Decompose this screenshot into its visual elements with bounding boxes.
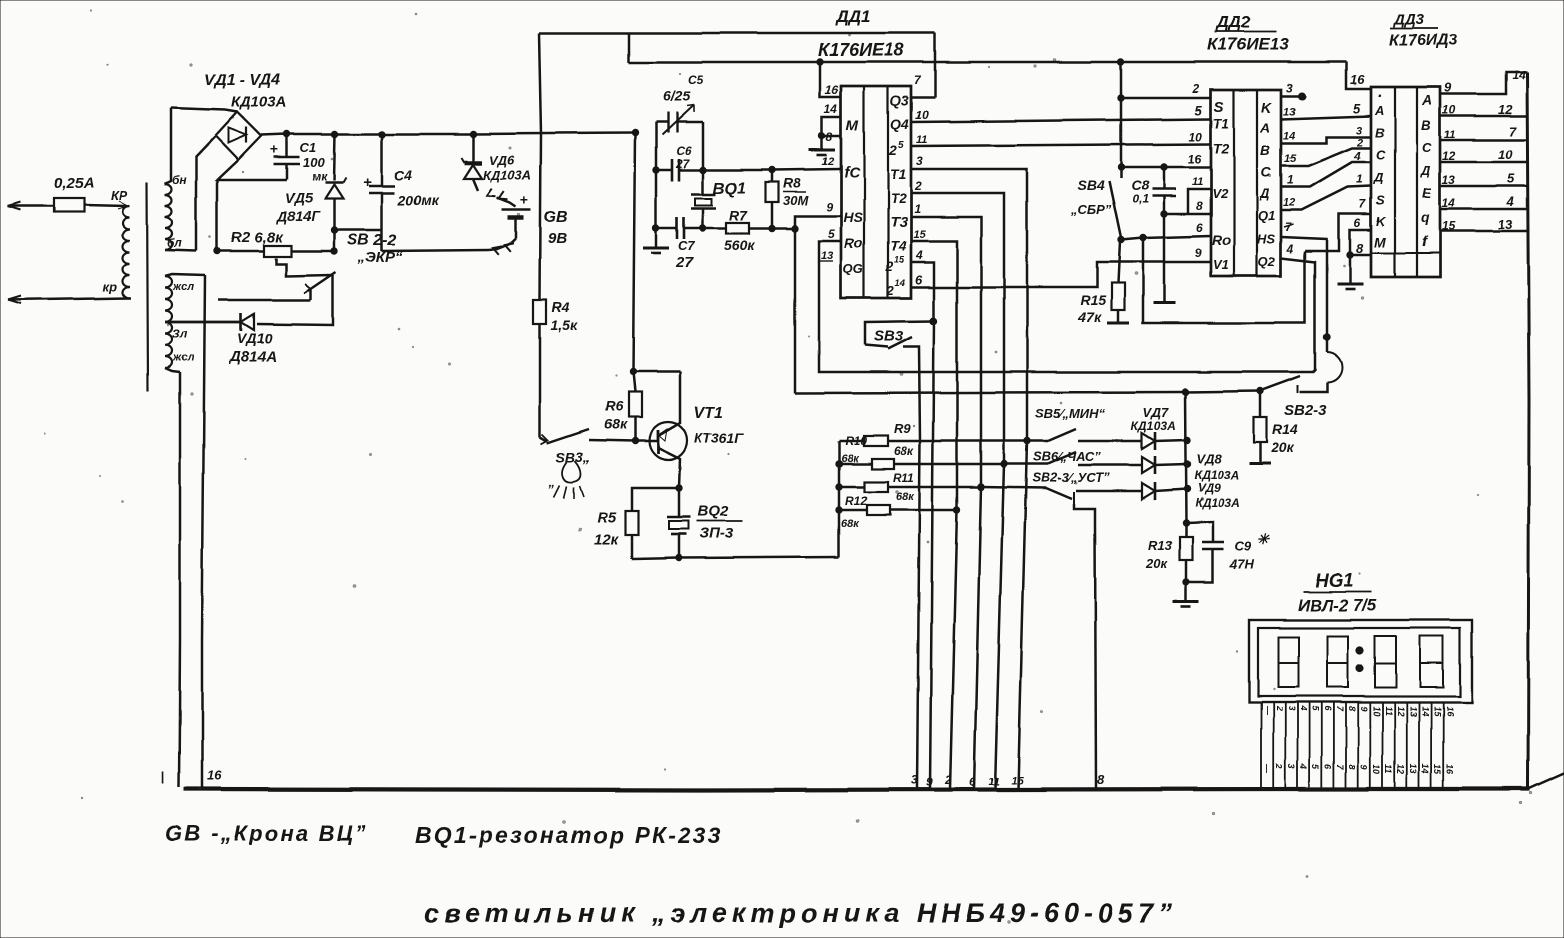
resistor R5 <box>632 488 679 511</box>
svg-text:HS: HS <box>843 209 863 225</box>
display HG1 inner box <box>1258 628 1460 696</box>
svg-text:68к: 68к <box>841 518 860 530</box>
resistor R10 <box>839 463 872 466</box>
fuse FU1 <box>54 198 84 212</box>
transformer T1 core <box>147 182 148 391</box>
svg-text:SB5⁄„МИН“: SB5⁄„МИН“ <box>1035 406 1106 421</box>
mains wire upper with arrow <box>8 202 21 206</box>
svg-text:ИВЛ-2 7/5: ИВЛ-2 7/5 <box>1297 596 1377 615</box>
svg-text:14: 14 <box>824 102 838 116</box>
svg-text:4: 4 <box>1353 149 1361 163</box>
svg-text:1: 1 <box>1356 172 1363 186</box>
svg-text:бл: бл <box>167 236 182 250</box>
wire secondary1 top to bridge <box>171 108 237 112</box>
svg-text:30М: 30М <box>783 193 809 208</box>
wire vcc vertical to audio stage <box>633 133 635 372</box>
resistor R14 <box>1259 391 1262 417</box>
wire DD2 Д to DD3 <box>1281 162 1371 187</box>
wire T2 pin2 bundle <box>911 193 1004 789</box>
svg-text:15: 15 <box>1432 706 1442 717</box>
svg-text:„СБР”: „СБР” <box>1070 202 1112 217</box>
svg-text:13: 13 <box>1408 764 1418 774</box>
svg-text:V2: V2 <box>1212 186 1229 201</box>
svg-text:SB 2-2: SB 2-2 <box>347 232 397 249</box>
svg-text:100: 100 <box>303 155 325 170</box>
capacitor C1 <box>286 134 289 157</box>
svg-text:27: 27 <box>675 157 691 171</box>
svg-text:10: 10 <box>1371 764 1381 774</box>
switch SB3 output wire <box>903 347 920 789</box>
svg-text:R15: R15 <box>1080 292 1106 308</box>
svg-text:3: 3 <box>911 773 918 787</box>
svg-text:12: 12 <box>1396 764 1406 774</box>
svg-text:T2: T2 <box>890 190 907 206</box>
svg-text:9В: 9В <box>548 230 567 247</box>
wire DD2 pin8 <box>1164 213 1211 216</box>
svg-text:14: 14 <box>1283 130 1295 142</box>
svg-text:B: B <box>1260 142 1270 158</box>
svg-text:1: 1 <box>1287 173 1294 187</box>
svg-text:C5: C5 <box>688 73 704 87</box>
svg-text:B: B <box>1375 125 1384 140</box>
svg-text:6: 6 <box>1354 216 1361 230</box>
display digit 4 <box>1420 636 1443 687</box>
svg-text:S: S <box>1376 193 1385 208</box>
svg-text:—: — <box>1262 705 1272 716</box>
bottom bus right diag <box>1528 773 1564 789</box>
svg-text:9: 9 <box>926 775 933 789</box>
wire DD3 B to bus <box>1440 115 1528 118</box>
wire secondary2 middle tap to VD10 <box>165 321 241 324</box>
capacitor C7 <box>656 227 677 230</box>
wire 2^5 to DD2 T2 <box>911 144 1211 146</box>
svg-text:15: 15 <box>1011 775 1024 787</box>
IC DD2 box <box>1211 90 1281 276</box>
wire vcc drop to pin16 <box>820 62 841 97</box>
svg-text:3: 3 <box>1286 706 1296 711</box>
svg-text:светильник „электроника ННБ49-: светильник „электроника ННБ49-60-057” <box>424 898 1177 928</box>
svg-text:68к: 68к <box>604 416 628 432</box>
capacitor C9 <box>1186 522 1213 542</box>
resistor R7 <box>703 227 726 230</box>
svg-text:3: 3 <box>1356 125 1362 137</box>
svg-text:16: 16 <box>1350 72 1365 87</box>
wire Q4 to DD2 T1 <box>911 119 1211 122</box>
svg-text:Д: Д <box>1373 170 1384 185</box>
svg-text:SB2-3: SB2-3 <box>1284 402 1327 419</box>
svg-text:R11: R11 <box>893 471 914 485</box>
battery GB <box>502 209 531 212</box>
svg-text:6: 6 <box>1323 764 1333 770</box>
svg-text:2: 2 <box>886 283 895 298</box>
svg-text:2: 2 <box>1356 137 1363 149</box>
svg-text:3: 3 <box>1286 764 1296 769</box>
svg-text:13: 13 <box>1408 706 1418 716</box>
svg-text:12: 12 <box>822 156 834 168</box>
svg-text:C: C <box>1422 140 1432 155</box>
svg-text:7: 7 <box>1335 764 1345 770</box>
svg-text:200мк: 200мк <box>397 192 440 208</box>
svg-text:VД9: VД9 <box>1197 481 1221 495</box>
svg-text:E: E <box>1422 185 1432 201</box>
switch SB3' <box>540 437 547 441</box>
svg-text:5: 5 <box>1353 101 1361 116</box>
wire DD2 HS down <box>1281 237 1327 352</box>
wire emitter top <box>635 371 680 374</box>
svg-text:КД103А: КД103А <box>231 94 287 111</box>
capacitor C6 <box>671 159 674 181</box>
svg-text:КТ361Г: КТ361Г <box>694 430 745 446</box>
svg-text:R13: R13 <box>1148 538 1173 553</box>
svg-text:2: 2 <box>888 142 897 158</box>
wire DD2 B to DD3 <box>1281 137 1371 143</box>
svg-text:Q4: Q4 <box>890 116 909 132</box>
wire R-row left bus <box>838 441 841 557</box>
svg-text:кр: кр <box>103 279 118 294</box>
svg-text:R5: R5 <box>597 510 617 527</box>
svg-text:14: 14 <box>1420 706 1430 716</box>
svg-text:К176ИЕ18: К176ИЕ18 <box>818 40 904 60</box>
svg-text:T4: T4 <box>890 238 907 254</box>
svg-text:КД103А: КД103А <box>1131 419 1176 433</box>
ground R13 <box>1173 600 1199 603</box>
switch SB5 <box>1027 440 1048 443</box>
wire T4 pin15 bundle <box>911 241 957 789</box>
svg-text:68к: 68к <box>841 453 860 465</box>
svg-text:R7: R7 <box>729 207 748 223</box>
svg-text:Q2: Q2 <box>1258 254 1276 269</box>
svg-text:11: 11 <box>1384 764 1394 773</box>
resistor R4 <box>534 300 547 324</box>
svg-text:11: 11 <box>1384 706 1394 715</box>
svg-text:„ЭКР“: „ЭКР“ <box>357 249 404 266</box>
svg-text:K: K <box>1376 214 1387 229</box>
svg-text:R14: R14 <box>1272 421 1298 437</box>
wire filament 16 <box>202 275 205 787</box>
svg-text:бн: бн <box>172 173 187 187</box>
wire DD2 V2 pin11 <box>1188 189 1211 214</box>
svg-text:C7: C7 <box>678 238 695 253</box>
svg-text:16: 16 <box>1444 706 1454 717</box>
wire DD2 A to DD3 <box>1281 116 1371 119</box>
svg-text:9: 9 <box>1359 706 1369 711</box>
svg-text:T2: T2 <box>1213 140 1230 156</box>
svg-text:SB4: SB4 <box>1077 177 1104 193</box>
svg-text:5: 5 <box>1195 103 1203 118</box>
transformer T1 primary winding <box>123 206 130 298</box>
svg-text:Д814Г: Д814Г <box>276 208 320 224</box>
wire label-box left edge <box>628 33 631 62</box>
IC DD3 pins 6 8 ground <box>1350 230 1371 255</box>
svg-text:6: 6 <box>1323 706 1333 712</box>
diode VD9 <box>1076 490 1142 493</box>
IC DD3 box <box>1371 87 1440 277</box>
wire arc to SB2-3 contact <box>1299 382 1327 392</box>
display digit 2 <box>1327 636 1348 687</box>
svg-text:4: 4 <box>915 248 923 262</box>
wire bridge DC- to C1 bottom row <box>217 160 287 180</box>
svg-text:47Н: 47Н <box>1229 557 1254 572</box>
battery contact lower <box>489 239 516 250</box>
display HG1 pins <box>1260 702 1262 787</box>
resistor R6 <box>633 372 635 392</box>
svg-text:R4: R4 <box>552 299 570 315</box>
svg-text:16: 16 <box>1444 764 1454 775</box>
wire DD1 pin7 stub <box>911 96 935 99</box>
svg-text:16: 16 <box>825 83 839 97</box>
resistor R2 <box>216 180 219 251</box>
svg-text:QG: QG <box>843 261 863 276</box>
svg-text:VT1: VT1 <box>694 405 723 422</box>
svg-text:Д814А: Д814А <box>228 348 277 365</box>
svg-text:6: 6 <box>1196 221 1203 235</box>
svg-text:7: 7 <box>1359 197 1367 211</box>
svg-text:A: A <box>1259 119 1270 135</box>
svg-text:16: 16 <box>1188 152 1202 166</box>
svg-text:14: 14 <box>1512 68 1526 82</box>
wire vcc rail y62 <box>629 61 1346 64</box>
display HG1 outer box <box>1249 620 1472 702</box>
svg-text:560к: 560к <box>724 237 755 253</box>
svg-text:fC: fC <box>844 164 861 181</box>
svg-text:15: 15 <box>1432 764 1442 775</box>
svg-text:11: 11 <box>916 134 927 146</box>
svg-text:R2 6,8к: R2 6,8к <box>231 229 284 246</box>
svg-text:2: 2 <box>914 179 922 193</box>
lamp icon <box>563 461 582 482</box>
bus right vertical <box>1527 72 1529 789</box>
resistor R9 <box>839 440 864 443</box>
svg-text:VД1 - VД4: VД1 - VД4 <box>204 72 281 89</box>
svg-text:1: 1 <box>914 202 921 216</box>
bottom bus thick <box>184 789 1530 790</box>
wire T3 pin1 bundle <box>911 217 981 789</box>
svg-text:15: 15 <box>913 229 926 241</box>
svg-text:C9: C9 <box>1235 539 1252 554</box>
switch SB6 <box>1004 463 1048 466</box>
svg-text:C8: C8 <box>1131 177 1149 193</box>
svg-text:HS: HS <box>1257 231 1275 246</box>
svg-text:Ro: Ro <box>844 235 863 251</box>
svg-text:B: B <box>1421 117 1431 133</box>
ground osc <box>655 228 658 247</box>
svg-text:9: 9 <box>826 200 833 214</box>
svg-text:15: 15 <box>894 255 905 265</box>
svg-text:HG1: HG1 <box>1315 571 1354 592</box>
end bar C8 <box>1153 302 1175 305</box>
svg-text:8: 8 <box>1196 199 1203 213</box>
svg-text:68к: 68к <box>894 444 914 458</box>
wire DD2 Q2 to DD1 Ro loop <box>1143 238 1305 323</box>
svg-text:T3: T3 <box>890 214 908 231</box>
wire fC row <box>703 169 841 170</box>
diode VD10 <box>240 313 243 331</box>
svg-text:T1: T1 <box>890 166 907 182</box>
display digit 1 <box>1278 637 1298 687</box>
svg-text:VД7: VД7 <box>1143 405 1169 420</box>
svg-text:жсл: жсл <box>172 352 194 364</box>
diode VD8 <box>1142 457 1155 473</box>
svg-text:Q3: Q3 <box>890 92 909 108</box>
svg-text:M: M <box>1374 234 1386 250</box>
resistor R13 <box>1180 537 1193 560</box>
svg-text:VД8: VД8 <box>1196 451 1222 466</box>
svg-text:9: 9 <box>1359 764 1369 769</box>
svg-text:9: 9 <box>1195 246 1202 260</box>
svg-text:2: 2 <box>885 259 894 274</box>
svg-text:16: 16 <box>207 768 222 783</box>
wire R4 branch vertical <box>539 33 541 300</box>
svg-text:C1: C1 <box>300 140 317 155</box>
battery contact upper <box>487 189 496 197</box>
svg-text:11: 11 <box>1192 176 1203 188</box>
svg-text:„: „ <box>548 474 556 489</box>
svg-text:C: C <box>1376 147 1386 162</box>
wire DD2 pin16 <box>1121 166 1211 169</box>
svg-text:27: 27 <box>675 254 693 271</box>
switch SB4 <box>1109 181 1121 238</box>
zener VD6 <box>472 134 475 161</box>
svg-text:7: 7 <box>914 73 922 87</box>
svg-text:K: K <box>1261 99 1272 115</box>
svg-text:20к: 20к <box>1145 556 1168 571</box>
svg-text:C4: C4 <box>394 167 412 183</box>
svg-text:+: + <box>270 141 278 157</box>
svg-text:20к: 20к <box>1270 439 1295 455</box>
wire SB2-2 right side <box>257 275 333 325</box>
svg-text:Q1: Q1 <box>1258 208 1275 223</box>
diode VD7 <box>1142 433 1155 449</box>
bridge rectifier VD1-VD4 <box>215 112 261 160</box>
svg-text:10: 10 <box>1189 130 1203 144</box>
svg-text:C6: C6 <box>676 144 692 158</box>
svg-text:VД5: VД5 <box>285 190 312 206</box>
svg-text:SB3: SB3 <box>874 328 904 345</box>
capacitor C4 <box>381 134 384 186</box>
wire DD2 Ro pin6 <box>1121 236 1211 240</box>
svg-text:BQ1: BQ1 <box>713 180 746 197</box>
svg-text:14: 14 <box>895 278 905 288</box>
svg-text:V1: V1 <box>1213 257 1229 272</box>
svg-text:13: 13 <box>1283 106 1295 118</box>
paper speckle noise <box>509 147 511 149</box>
wire DD2 K stub <box>1281 95 1300 98</box>
transformer T1 secondary winding 1 <box>165 184 172 250</box>
svg-text:КД103А: КД103А <box>1194 468 1239 482</box>
svg-text:SB6⁄„ЧАС”: SB6⁄„ЧАС” <box>1033 449 1101 464</box>
wire DD3 f to bus <box>1440 230 1528 233</box>
wire DD2 S pin2 <box>1121 97 1211 100</box>
svg-text:10: 10 <box>1371 706 1381 716</box>
svg-text:10: 10 <box>915 108 929 122</box>
svg-text:5: 5 <box>828 227 835 241</box>
wire 2^15 pin4 bundle <box>911 262 934 789</box>
svg-text:5: 5 <box>1311 764 1321 770</box>
svg-text:К176ИЕ13: К176ИЕ13 <box>1207 35 1289 54</box>
svg-text:+: + <box>363 174 372 191</box>
wire T1 pin3 bundle <box>911 169 1027 789</box>
svg-text:BQ2: BQ2 <box>698 503 730 520</box>
switch SB2-3 main <box>1262 376 1300 390</box>
wire SB4 vertical <box>1120 62 1123 178</box>
svg-text:4: 4 <box>1286 242 1294 256</box>
svg-text:R6: R6 <box>605 398 623 414</box>
switch SB3 box <box>865 321 933 345</box>
svg-text:4: 4 <box>1298 705 1308 711</box>
svg-text:4: 4 <box>1506 194 1515 209</box>
svg-text:2: 2 <box>1192 82 1200 96</box>
svg-text:VД10: VД10 <box>237 330 272 346</box>
svg-text:2: 2 <box>944 773 952 787</box>
svg-text:GB: GB <box>544 209 568 226</box>
svg-text:4: 4 <box>1298 763 1308 769</box>
svg-text:R8: R8 <box>783 175 801 191</box>
svg-text:R9: R9 <box>894 421 911 436</box>
svg-text:7: 7 <box>1335 706 1345 712</box>
svg-text:ДД3: ДД3 <box>1392 11 1425 28</box>
svg-text:8: 8 <box>1347 706 1357 711</box>
svg-text:S: S <box>1214 99 1224 116</box>
svg-text:VД6: VД6 <box>489 153 515 168</box>
resistor R8 <box>771 170 774 182</box>
wire top rail y33 <box>539 32 935 35</box>
svg-text:К176ИД3: К176ИД3 <box>1389 32 1458 49</box>
svg-text:13: 13 <box>821 250 833 262</box>
wire osc loop left <box>655 122 658 228</box>
crystal BQ1 <box>702 170 705 193</box>
svg-text:47к: 47к <box>1077 309 1102 325</box>
svg-text:Д: Д <box>1259 186 1270 201</box>
wire DD3 K pin7 <box>1305 214 1371 251</box>
wire R2 row to battery <box>382 250 489 251</box>
svg-text:2: 2 <box>1274 705 1284 711</box>
resistor R15 <box>1118 241 1120 283</box>
svg-text:1,5к: 1,5к <box>551 317 578 333</box>
svg-text:f: f <box>1422 233 1428 249</box>
svg-text:12к: 12к <box>594 532 620 549</box>
svg-text:ЗП-3: ЗП-3 <box>700 525 734 542</box>
display colon <box>1356 646 1363 653</box>
svg-text:6: 6 <box>915 272 923 287</box>
svg-text:Зл: Зл <box>172 327 188 341</box>
svg-text:T1: T1 <box>1213 115 1230 131</box>
svg-text:11: 11 <box>988 776 999 788</box>
svg-text:R12: R12 <box>845 494 867 508</box>
svg-text:5: 5 <box>1311 706 1321 712</box>
svg-text:6/25: 6/25 <box>663 88 690 104</box>
wire 2^14 pin6 to DD2 V1 <box>911 262 1211 287</box>
svg-text:A: A <box>1421 92 1432 108</box>
svg-text:GB -„Крона ВЦ”: GB -„Крона ВЦ” <box>165 821 368 846</box>
wire HS row <box>795 216 841 228</box>
wire DD3 q to bus <box>1440 208 1528 211</box>
svg-text:15: 15 <box>1284 153 1297 165</box>
wire filament 1 <box>179 372 180 787</box>
wire HS down to SB2-3 row <box>794 228 797 393</box>
svg-text:3: 3 <box>916 154 923 168</box>
transformer T1 secondary winding 2 <box>165 276 172 368</box>
wire audio bottom row <box>632 557 839 559</box>
svg-text:КД103А: КД103А <box>483 168 531 183</box>
svg-text:6: 6 <box>969 775 976 789</box>
svg-text:12: 12 <box>1283 197 1295 209</box>
svg-text:q: q <box>1421 209 1430 225</box>
wire DD2 Q1 to DD3 <box>1281 186 1371 210</box>
wire Ro pin5 long <box>819 241 1315 372</box>
wire secondary1 bottom to bridge <box>196 137 215 251</box>
svg-text:✳: ✳ <box>1257 532 1271 549</box>
svg-text:2: 2 <box>1274 763 1284 769</box>
